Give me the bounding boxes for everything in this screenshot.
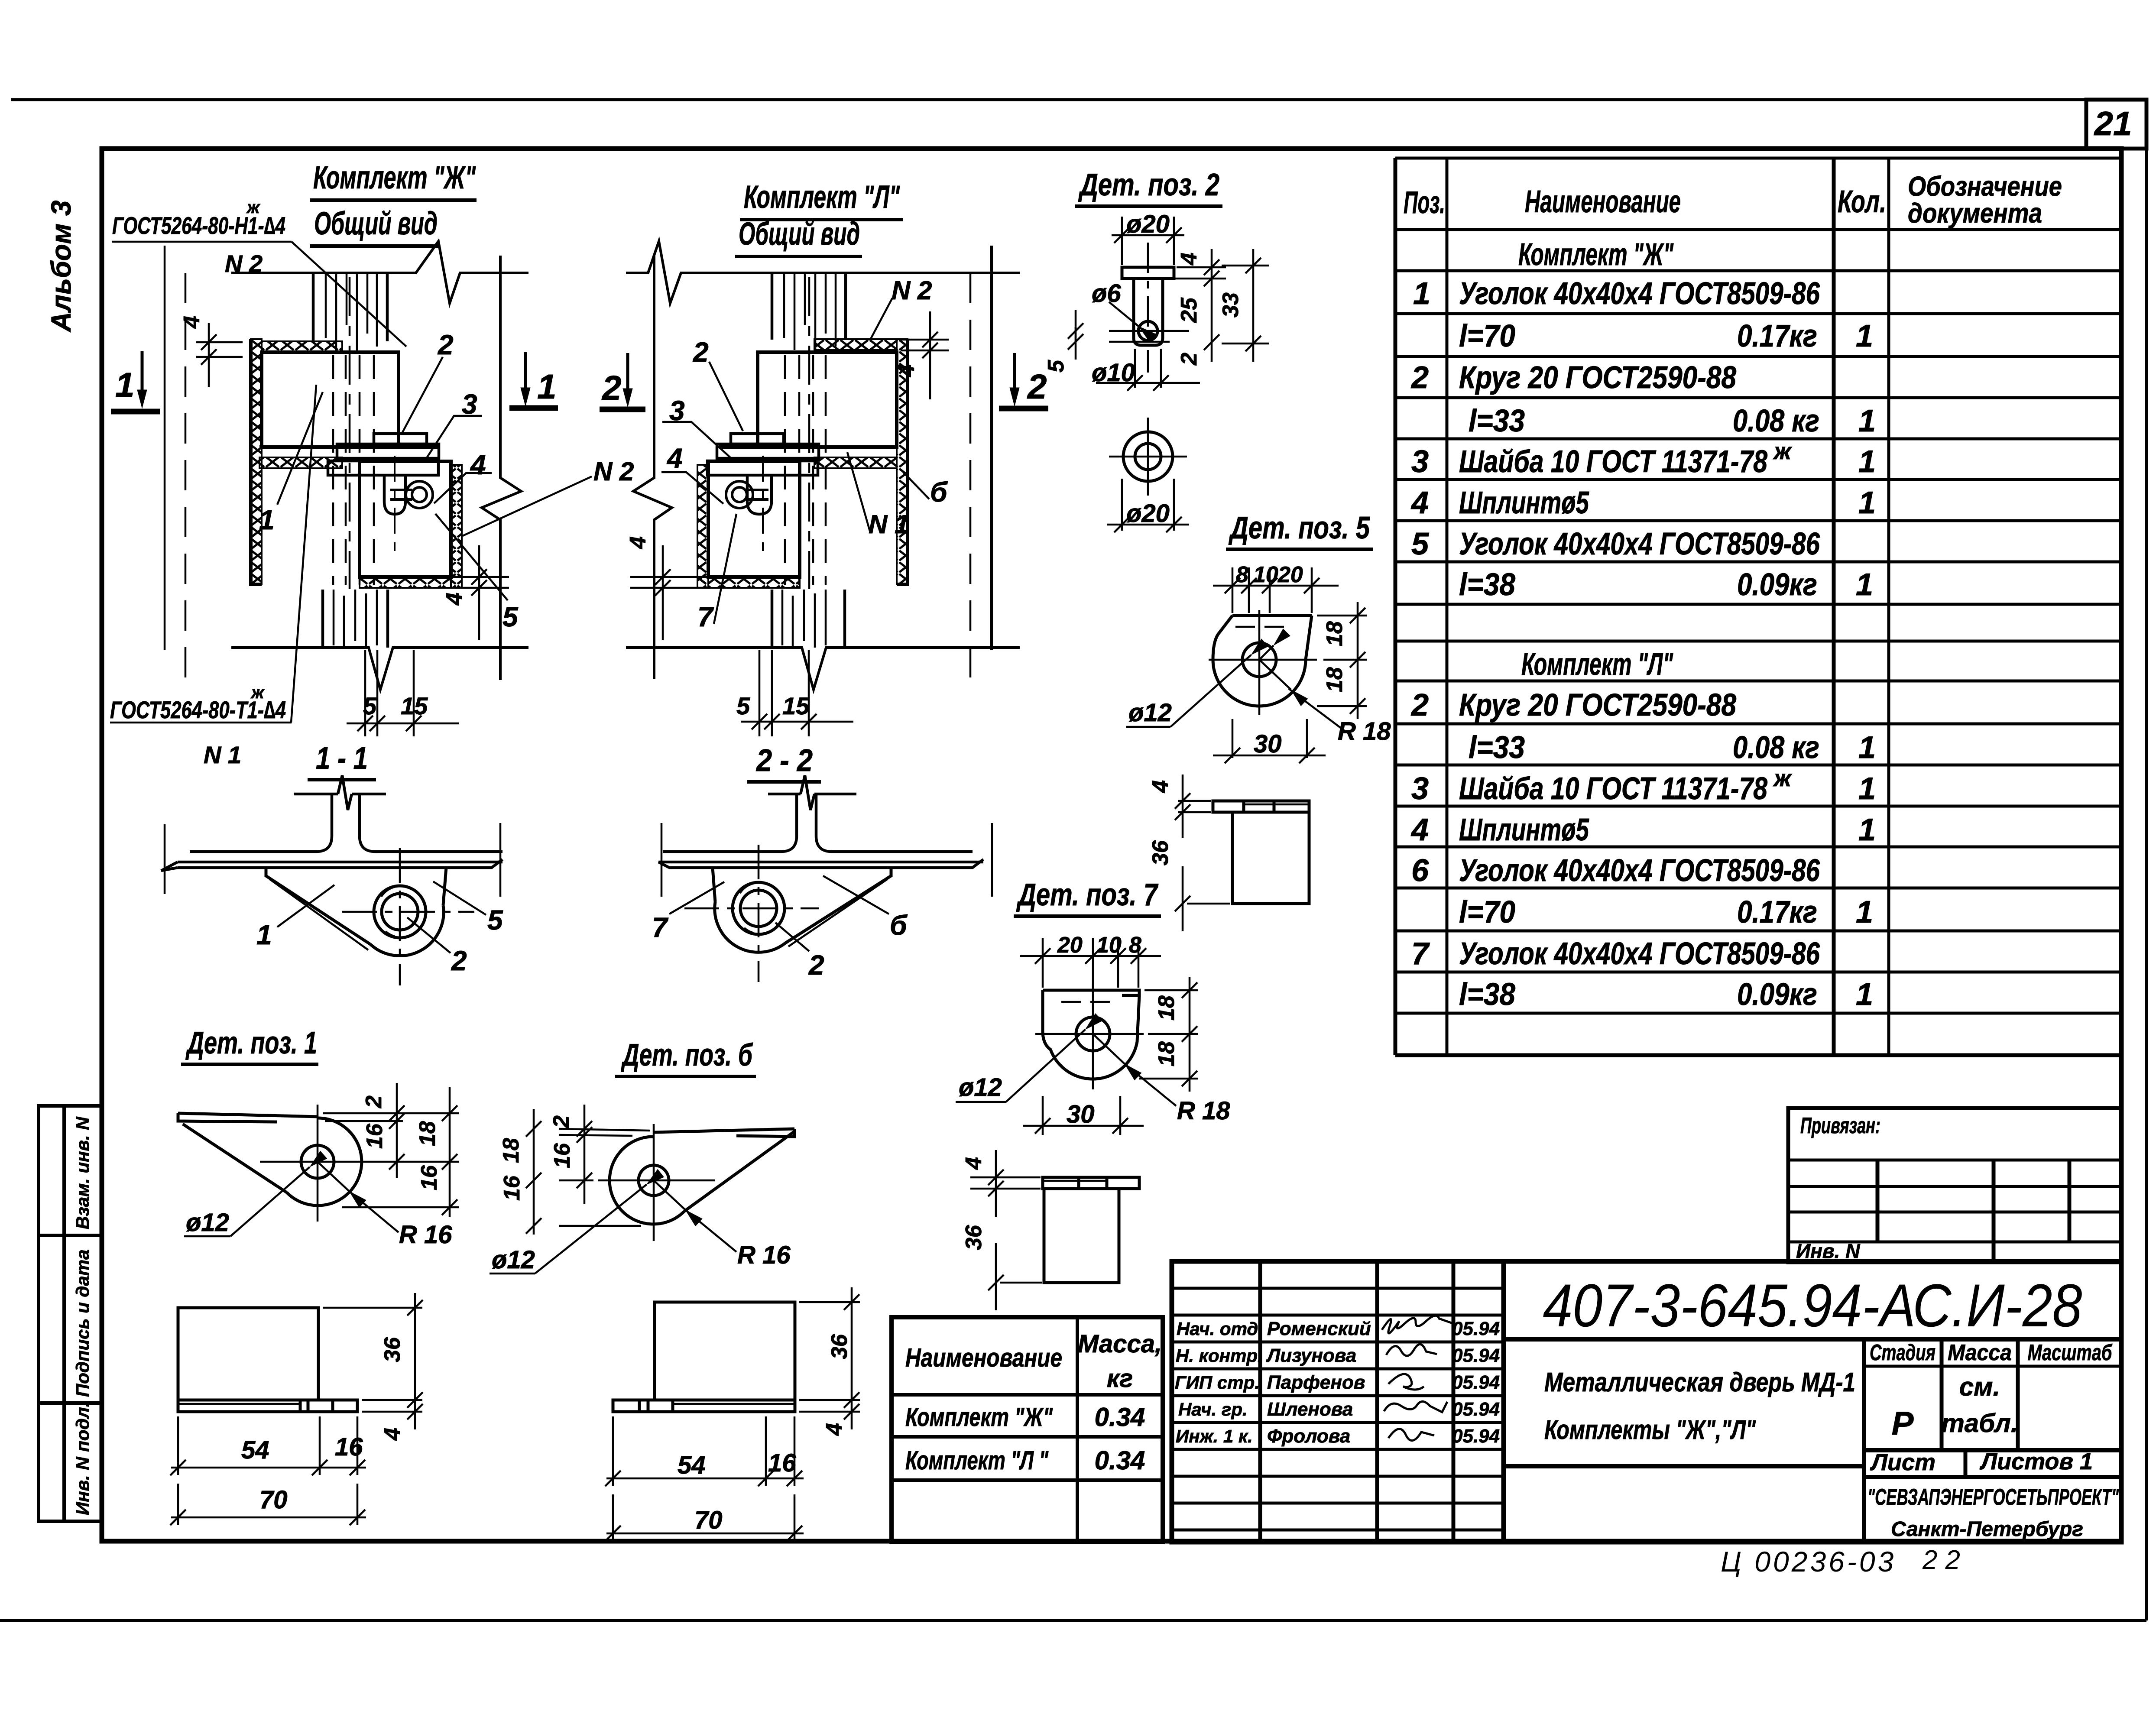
svg-text:3: 3 bbox=[462, 389, 477, 420]
svg-text:4: 4 bbox=[666, 443, 683, 474]
svg-text:Дет. поз. 1: Дет. поз. 1 bbox=[185, 1026, 317, 1060]
svg-text:Круг 20 ГОСТ2590-88: Круг 20 ГОСТ2590-88 bbox=[1459, 688, 1736, 723]
svg-text:18: 18 bbox=[499, 1138, 524, 1163]
svg-text:18: 18 bbox=[1154, 995, 1179, 1021]
svg-text:Лизунова: Лизунова bbox=[1266, 1345, 1356, 1366]
svg-text:2: 2 bbox=[1410, 360, 1429, 395]
svg-text:l=33: l=33 bbox=[1469, 730, 1525, 765]
svg-text:16: 16 bbox=[499, 1175, 525, 1201]
svg-text:16: 16 bbox=[550, 1143, 575, 1168]
svg-text:Стадия: Стадия bbox=[1870, 1340, 1936, 1365]
svg-text:4: 4 bbox=[961, 1157, 986, 1170]
svg-text:ø6: ø6 bbox=[1092, 279, 1121, 308]
svg-text:l=38: l=38 bbox=[1459, 977, 1515, 1012]
svg-text:Кол.: Кол. bbox=[1838, 185, 1886, 219]
svg-text:4: 4 bbox=[1148, 780, 1173, 793]
svg-text:4: 4 bbox=[1410, 486, 1429, 520]
svg-text:16: 16 bbox=[335, 1433, 363, 1461]
svg-text:2: 2 bbox=[549, 1115, 574, 1128]
svg-text:ж: ж bbox=[1773, 765, 1793, 791]
svg-text:Комплект "Л": Комплект "Л" bbox=[744, 179, 900, 215]
svg-text:Уголок 40х40х4 ГОСТ8509-86: Уголок 40х40х4 ГОСТ8509-86 bbox=[1459, 853, 1820, 888]
svg-text:см.: см. bbox=[1959, 1372, 2000, 1401]
svg-text:36: 36 bbox=[380, 1337, 405, 1362]
svg-text:R 16: R 16 bbox=[737, 1241, 791, 1269]
svg-text:407-3-645.94-АС.И-28: 407-3-645.94-АС.И-28 bbox=[1543, 1271, 2082, 1339]
svg-text:1 - 1: 1 - 1 bbox=[316, 741, 368, 776]
svg-text:1: 1 bbox=[537, 367, 557, 406]
svg-text:Уголок 40х40х4 ГОСТ8509-86: Уголок 40х40х4 ГОСТ8509-86 bbox=[1459, 527, 1820, 561]
svg-text:Парфенов: Парфенов bbox=[1267, 1372, 1365, 1393]
svg-text:05.94: 05.94 bbox=[1452, 1399, 1500, 1420]
svg-text:4: 4 bbox=[1410, 813, 1429, 847]
svg-text:1: 1 bbox=[1856, 319, 1873, 353]
svg-text:1: 1 bbox=[1858, 771, 1876, 806]
svg-text:кг: кг bbox=[1107, 1364, 1133, 1393]
svg-text:4: 4 bbox=[894, 364, 919, 377]
svg-text:Инж. 1 к.: Инж. 1 к. bbox=[1176, 1426, 1253, 1446]
svg-text:Лист: Лист bbox=[1870, 1449, 1936, 1475]
svg-text:Листов 1: Листов 1 bbox=[1979, 1449, 2093, 1474]
svg-text:Комплекты "Ж","Л": Комплекты "Ж","Л" bbox=[1544, 1415, 1756, 1445]
svg-text:1: 1 bbox=[1856, 567, 1873, 602]
svg-text:Комплект "Ж": Комплект "Ж" bbox=[313, 159, 476, 195]
svg-text:18: 18 bbox=[1322, 667, 1347, 692]
svg-text:ж: ж bbox=[1773, 438, 1793, 464]
svg-text:1: 1 bbox=[1858, 486, 1876, 520]
svg-text:0.08 кг: 0.08 кг bbox=[1733, 404, 1819, 438]
svg-text:2: 2 bbox=[438, 329, 454, 360]
svg-text:22: 22 bbox=[1922, 1545, 1968, 1575]
svg-text:1: 1 bbox=[1413, 276, 1430, 311]
svg-text:l=70: l=70 bbox=[1459, 895, 1515, 930]
svg-text:Шайба 10 ГОСТ 11371-78: Шайба 10 ГОСТ 11371-78 bbox=[1459, 444, 1767, 479]
svg-text:54: 54 bbox=[678, 1451, 706, 1479]
svg-text:18: 18 bbox=[1322, 621, 1347, 646]
svg-text:5: 5 bbox=[1044, 360, 1069, 373]
svg-text:ГИП стр.: ГИП стр. bbox=[1175, 1372, 1260, 1393]
svg-text:15: 15 bbox=[782, 692, 810, 719]
svg-text:0.09кг: 0.09кг bbox=[1737, 977, 1817, 1012]
svg-text:20: 20 bbox=[1057, 933, 1083, 958]
svg-text:30: 30 bbox=[1254, 730, 1282, 758]
svg-text:ø10: ø10 bbox=[1092, 359, 1135, 387]
svg-text:Нач. отд.: Нач. отд. bbox=[1177, 1319, 1263, 1339]
svg-text:0.09кг: 0.09кг bbox=[1737, 567, 1817, 602]
svg-text:Нач. гр.: Нач. гр. bbox=[1178, 1399, 1248, 1419]
svg-text:б: б bbox=[890, 910, 908, 941]
svg-text:Масса: Масса bbox=[1948, 1340, 2012, 1365]
svg-text:ø20: ø20 bbox=[1126, 499, 1170, 528]
svg-text:Наименование: Наименование bbox=[1525, 185, 1681, 219]
svg-text:1: 1 bbox=[259, 504, 275, 535]
svg-text:05.94: 05.94 bbox=[1452, 1318, 1500, 1339]
svg-text:16: 16 bbox=[768, 1449, 796, 1477]
svg-text:Масштаб: Масштаб bbox=[2028, 1340, 2113, 1365]
svg-text:Уголок 40х40х4 ГОСТ8509-86: Уголок 40х40х4 ГОСТ8509-86 bbox=[1459, 937, 1820, 971]
svg-text:05.94: 05.94 bbox=[1452, 1372, 1500, 1393]
svg-text:Круг 20 ГОСТ2590-88: Круг 20 ГОСТ2590-88 bbox=[1459, 360, 1736, 395]
svg-text:Инв. N подл.: Инв. N подл. bbox=[72, 1402, 93, 1515]
svg-text:Санкт-Петербург: Санкт-Петербург bbox=[1891, 1518, 2083, 1541]
svg-text:5: 5 bbox=[736, 692, 750, 719]
svg-text:8: 8 bbox=[1129, 933, 1141, 958]
svg-text:4: 4 bbox=[470, 449, 486, 480]
svg-text:Ц 00236-03: Ц 00236-03 bbox=[1721, 1546, 1896, 1578]
svg-text:15: 15 bbox=[401, 692, 428, 719]
svg-text:36: 36 bbox=[1148, 840, 1173, 865]
svg-text:1: 1 bbox=[1858, 730, 1876, 765]
svg-text:30: 30 bbox=[1067, 1100, 1095, 1128]
svg-text:36: 36 bbox=[961, 1225, 986, 1250]
svg-text:5: 5 bbox=[487, 904, 503, 936]
svg-text:5: 5 bbox=[1411, 527, 1429, 561]
svg-text:1: 1 bbox=[1858, 404, 1876, 438]
svg-text:1: 1 bbox=[256, 919, 272, 950]
svg-text:0.34: 0.34 bbox=[1095, 1403, 1145, 1432]
svg-text:5: 5 bbox=[363, 692, 377, 719]
svg-text:ø12: ø12 bbox=[1128, 699, 1172, 727]
svg-text:10: 10 bbox=[1096, 933, 1122, 958]
svg-text:Шплинтø5: Шплинтø5 bbox=[1459, 486, 1589, 520]
svg-text:4: 4 bbox=[442, 593, 467, 606]
svg-text:1: 1 bbox=[1858, 444, 1876, 479]
svg-text:16: 16 bbox=[362, 1123, 387, 1149]
svg-text:Дет. поз. 7: Дет. поз. 7 bbox=[1016, 878, 1158, 912]
svg-text:Взам. инв. N: Взам. инв. N bbox=[72, 1116, 93, 1229]
svg-text:3: 3 bbox=[669, 395, 685, 426]
svg-text:Металлическая дверь МД-1: Металлическая дверь МД-1 bbox=[1544, 1368, 1855, 1397]
svg-text:ø12: ø12 bbox=[959, 1073, 1002, 1102]
svg-text:36: 36 bbox=[827, 1334, 852, 1359]
svg-text:табл.: табл. bbox=[1941, 1409, 2018, 1438]
svg-text:ø12: ø12 bbox=[492, 1246, 535, 1274]
svg-text:документа: документа bbox=[1908, 198, 2042, 229]
svg-text:0.17кг: 0.17кг bbox=[1737, 895, 1817, 930]
svg-text:1: 1 bbox=[1858, 813, 1876, 847]
svg-text:б: б bbox=[930, 476, 948, 508]
svg-text:05.94: 05.94 bbox=[1452, 1426, 1500, 1447]
svg-text:Поз.: Поз. bbox=[1404, 185, 1445, 220]
svg-text:Подпись и дата: Подпись и дата bbox=[72, 1250, 93, 1397]
svg-text:2: 2 bbox=[451, 945, 467, 976]
svg-text:N 1: N 1 bbox=[869, 510, 909, 539]
svg-text:Шплинтø5: Шплинтø5 bbox=[1459, 813, 1589, 847]
svg-text:2: 2 bbox=[1177, 353, 1202, 366]
svg-text:Привязан:: Привязан: bbox=[1800, 1113, 1880, 1138]
svg-text:2: 2 bbox=[601, 369, 622, 407]
svg-text:2: 2 bbox=[361, 1095, 386, 1108]
svg-text:2: 2 bbox=[693, 337, 709, 368]
svg-text:70: 70 bbox=[259, 1486, 288, 1514]
svg-text:3: 3 bbox=[1411, 771, 1429, 806]
svg-text:20: 20 bbox=[1277, 562, 1303, 587]
svg-text:25: 25 bbox=[1177, 297, 1202, 323]
svg-text:Масса,: Масса, bbox=[1078, 1330, 1162, 1358]
svg-text:ø20: ø20 bbox=[1126, 210, 1170, 238]
svg-text:Комплект "Л": Комплект "Л" bbox=[1521, 647, 1673, 682]
svg-text:l=33: l=33 bbox=[1469, 404, 1525, 438]
svg-text:21: 21 bbox=[2094, 104, 2132, 143]
svg-text:ж: ж bbox=[246, 198, 261, 217]
svg-text:Дет. поз. 2: Дет. поз. 2 bbox=[1078, 168, 1219, 202]
svg-text:Фролова: Фролова bbox=[1267, 1426, 1350, 1447]
svg-text:Шайба 10 ГОСТ 11371-78: Шайба 10 ГОСТ 11371-78 bbox=[1459, 771, 1767, 806]
svg-text:N 2: N 2 bbox=[593, 457, 634, 486]
svg-text:18: 18 bbox=[1154, 1041, 1179, 1066]
svg-text:7: 7 bbox=[1411, 937, 1430, 971]
svg-text:10: 10 bbox=[1253, 562, 1278, 587]
svg-text:1: 1 bbox=[1856, 895, 1873, 930]
svg-text:R 16: R 16 bbox=[399, 1221, 452, 1249]
svg-text:l=38: l=38 bbox=[1459, 567, 1515, 602]
svg-text:7: 7 bbox=[652, 912, 669, 943]
svg-text:70: 70 bbox=[694, 1506, 723, 1534]
svg-text:4: 4 bbox=[179, 316, 204, 329]
svg-text:ø12: ø12 bbox=[186, 1209, 229, 1237]
svg-text:Дет. поз. б: Дет. поз. б bbox=[621, 1038, 753, 1073]
svg-text:33: 33 bbox=[1218, 292, 1243, 318]
svg-text:0.17кг: 0.17кг bbox=[1737, 319, 1817, 353]
svg-text:Наименование: Наименование bbox=[905, 1343, 1062, 1372]
svg-text:Р: Р bbox=[1892, 1405, 1914, 1442]
svg-text:Комплект "Ж": Комплект "Ж" bbox=[905, 1403, 1053, 1432]
svg-text:Уголок 40х40х4 ГОСТ8509-86: Уголок 40х40х4 ГОСТ8509-86 bbox=[1459, 276, 1820, 311]
svg-text:0.34: 0.34 bbox=[1095, 1446, 1145, 1475]
svg-text:1: 1 bbox=[115, 366, 135, 404]
svg-text:Общий вид: Общий вид bbox=[314, 205, 438, 241]
svg-text:N 2: N 2 bbox=[892, 276, 932, 305]
svg-text:2 - 2: 2 - 2 bbox=[755, 743, 813, 778]
svg-text:ж: ж bbox=[250, 683, 265, 702]
svg-text:8: 8 bbox=[1236, 562, 1248, 587]
svg-text:1: 1 bbox=[1856, 977, 1873, 1012]
svg-text:Шленова: Шленова bbox=[1267, 1399, 1353, 1420]
svg-text:Роменский: Роменский bbox=[1267, 1318, 1371, 1339]
svg-text:7: 7 bbox=[697, 601, 714, 632]
svg-text:Общий вид: Общий вид bbox=[739, 216, 860, 252]
svg-text:4: 4 bbox=[626, 536, 651, 549]
svg-text:N 1: N 1 bbox=[204, 741, 241, 768]
svg-text:54: 54 bbox=[241, 1436, 269, 1464]
svg-text:R 18: R 18 bbox=[1177, 1097, 1230, 1125]
svg-text:4: 4 bbox=[380, 1428, 405, 1441]
svg-text:Инв. N: Инв. N bbox=[1796, 1240, 1860, 1262]
svg-text:"СЕВЗАПЭНЕРГОСЕТЬПРОЕКТ": "СЕВЗАПЭНЕРГОСЕТЬПРОЕКТ" bbox=[1867, 1484, 2119, 1510]
svg-text:3: 3 bbox=[1411, 444, 1429, 479]
svg-text:16: 16 bbox=[417, 1165, 442, 1190]
svg-text:05.94: 05.94 bbox=[1452, 1345, 1500, 1366]
svg-text:4: 4 bbox=[1177, 253, 1202, 266]
svg-text:2: 2 bbox=[808, 949, 824, 981]
svg-text:Комплект "Ж": Комплект "Ж" bbox=[1518, 237, 1674, 272]
svg-text:Комплект "Л ": Комплект "Л " bbox=[905, 1446, 1049, 1475]
svg-text:0.08 кг: 0.08 кг bbox=[1733, 730, 1819, 765]
svg-text:6: 6 bbox=[1411, 853, 1429, 888]
svg-text:5: 5 bbox=[503, 601, 519, 632]
svg-text:Альбом 3: Альбом 3 bbox=[45, 201, 77, 333]
svg-text:R 18: R 18 bbox=[1338, 717, 1391, 745]
svg-text:18: 18 bbox=[415, 1121, 440, 1146]
svg-text:2: 2 bbox=[1027, 367, 1047, 406]
svg-text:l=70: l=70 bbox=[1459, 319, 1515, 353]
svg-text:2: 2 bbox=[1410, 688, 1429, 723]
svg-text:4: 4 bbox=[822, 1423, 847, 1436]
svg-text:Н. контр.: Н. контр. bbox=[1176, 1345, 1263, 1366]
svg-text:Дет. поз. 5: Дет. поз. 5 bbox=[1228, 511, 1370, 545]
